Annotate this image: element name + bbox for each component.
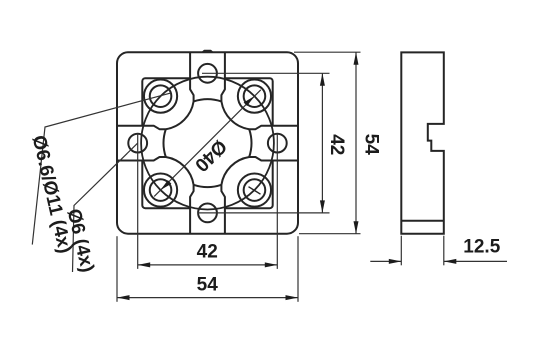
arrow D40 SW [161, 180, 172, 190]
counterbore hole TR outer [238, 80, 271, 113]
dim line 12.5 right tail [444, 260, 507, 262]
dim line 12.5 left tail [370, 260, 401, 262]
inner boss square corner TR [225, 78, 273, 126]
leader for D6.6/D11 [32, 93, 171, 245]
ext line 42-right bottom (from bottom hole) [198, 212, 330, 214]
svg-text:12.5: 12.5 [463, 237, 500, 258]
arrow 12.5 right (points left) [444, 259, 457, 264]
outer plate 54x54 rounded square [117, 52, 298, 234]
counterbore hole TL outer [144, 80, 177, 113]
ext line 54-right bottom [299, 233, 361, 235]
svg-text:42: 42 [326, 134, 347, 155]
arrow 42-horiz left [138, 262, 151, 267]
ext line 12.5 right [443, 236, 445, 266]
dim line 42 horizontal [138, 264, 278, 266]
ext line 54-right top [294, 51, 361, 53]
arrow 42-vert down [320, 200, 325, 213]
cap arc bottom [194, 185, 222, 187]
arrow 12.5 left (points right) [389, 259, 402, 264]
inner boss square corner TL [142, 78, 190, 126]
svg-text:42: 42 [197, 242, 218, 263]
counterbore hole TR inner [244, 85, 266, 107]
cap arc top (central boss dome) [194, 99, 222, 101]
side view base line [401, 220, 444, 222]
dim line D40 diagonal [154, 90, 261, 197]
arrow 54-horiz right [286, 295, 299, 300]
cap arc right [249, 129, 251, 157]
dim line 42 vertical [321, 73, 323, 213]
dim line 54 vertical [355, 52, 357, 234]
small hole right [268, 134, 287, 153]
counterbore hole BL inner [150, 179, 172, 201]
svg-text:Ø40: Ø40 [190, 135, 230, 175]
arrow D40 NE [244, 96, 255, 106]
ext line 42-right top (from top hole) [202, 72, 330, 74]
side view outline [401, 52, 444, 233]
top nub [203, 51, 213, 53]
small hole bottom [198, 204, 217, 223]
ext line 12.5 left [400, 236, 402, 266]
center cross blob outline [117, 52, 298, 234]
arrow 54-vert down [354, 221, 359, 234]
arrow 54-horiz left [117, 295, 130, 300]
counterbore hole TL inner [150, 85, 172, 107]
inner boss square corner BR [225, 161, 273, 209]
leader for D6 [73, 143, 138, 272]
counterbore hole BL outer [144, 173, 177, 206]
counterbore hole BR inner [244, 179, 266, 201]
counterbore hole BR outer [238, 173, 271, 206]
small hole top [198, 64, 217, 83]
ext line 54-bottom left [116, 236, 118, 302]
svg-text:Ø6.6/Ø11 (4x): Ø6.6/Ø11 (4x) [28, 133, 76, 255]
BR hole center tick [249, 187, 261, 195]
ext line 42-bottom left (from left hole) [137, 134, 139, 269]
ext line 42-bottom right (from right hole) [276, 134, 278, 269]
arrow 42-vert up [320, 73, 325, 86]
arrow 42-horiz right [265, 262, 278, 267]
inner boss square corner BL [142, 161, 190, 209]
small hole left [128, 134, 147, 153]
svg-text:54: 54 [197, 274, 219, 295]
svg-text:54: 54 [361, 134, 382, 156]
arrow 54-vert up [354, 52, 359, 64]
bolt circle D40 [141, 77, 274, 210]
cap arc left [164, 129, 166, 157]
ext line 54-bottom right [297, 236, 299, 302]
dim line 54 horizontal [117, 297, 298, 299]
